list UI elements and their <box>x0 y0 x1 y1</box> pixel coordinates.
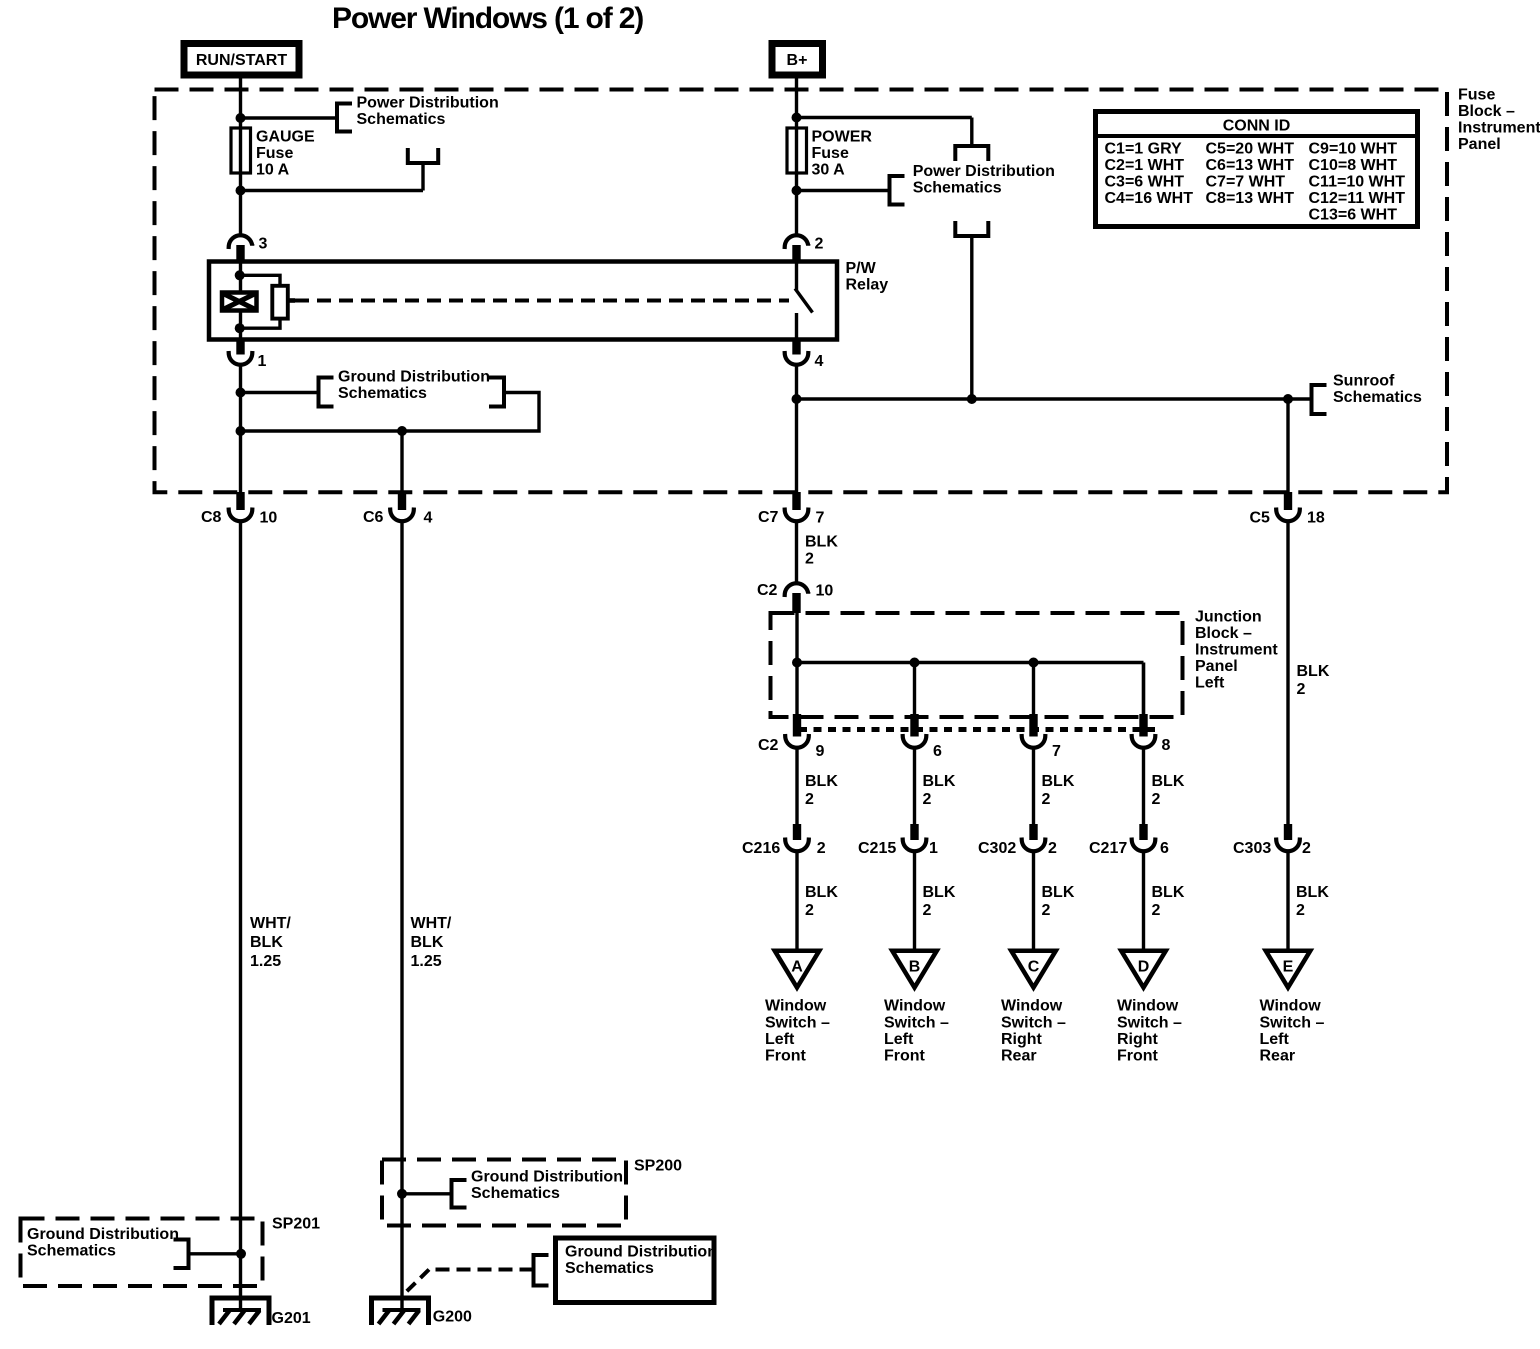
svg-text:Sunroof: Sunroof <box>1333 373 1395 390</box>
connector C2 face dotted line <box>799 727 1155 732</box>
svg-text:Switch –: Switch – <box>1117 1014 1182 1031</box>
svg-text:SP200: SP200 <box>634 1158 682 1175</box>
svg-text:P/W: P/W <box>846 260 877 277</box>
connector C5 pin 18 <box>1276 492 1300 521</box>
bracket to Ground Distribution (fuse block) <box>319 378 334 407</box>
svg-text:Left: Left <box>765 1031 795 1048</box>
svg-text:Switch –: Switch – <box>1001 1014 1066 1031</box>
wire junction drop pin 6 <box>913 663 916 715</box>
wire RUN/START to fuse F-GAUGE <box>239 78 242 128</box>
svg-text:D: D <box>1138 959 1150 976</box>
svg-text:G200: G200 <box>433 1309 472 1326</box>
wire stem up to bracket <box>421 163 424 191</box>
svg-text:2: 2 <box>1042 902 1051 919</box>
svg-text:Window: Window <box>884 998 946 1015</box>
svg-text:G201: G201 <box>272 1310 311 1327</box>
ground G201 <box>212 1298 269 1325</box>
svg-text:BLK: BLK <box>805 773 838 790</box>
svg-text:10: 10 <box>260 510 278 527</box>
wire C7 to C2-10 <box>795 522 798 583</box>
svg-text:Schematics: Schematics <box>27 1243 116 1260</box>
svg-text:BLK: BLK <box>1296 884 1329 901</box>
svg-text:BLK: BLK <box>1152 884 1185 901</box>
relay switch contact <box>795 262 813 340</box>
wire C303 to ground triangle E <box>1286 852 1289 951</box>
junction block - instrument panel left dashed box <box>771 613 1183 717</box>
svg-text:C: C <box>1028 959 1040 976</box>
node junction bus pin6 <box>910 658 920 668</box>
connector C216 pin 2 <box>785 824 809 851</box>
svg-text:WHT/: WHT/ <box>411 915 452 932</box>
svg-text:Schematics: Schematics <box>357 111 446 128</box>
relay pin 1 connector <box>229 340 253 365</box>
fuse block - instrument panel dashed box <box>155 90 1448 493</box>
svg-text:Schematics: Schematics <box>338 385 427 402</box>
connector C2 pin 6 <box>903 714 927 748</box>
wire junction drop pin 8 <box>1142 663 1146 715</box>
svg-text:7: 7 <box>816 510 825 527</box>
svg-text:C216: C216 <box>742 840 780 857</box>
svg-text:Block –: Block – <box>1195 625 1252 642</box>
svg-text:30 A: 30 A <box>812 162 846 179</box>
bracket below Power Distribution (right) <box>955 221 988 236</box>
svg-text:Schematics: Schematics <box>1333 389 1422 406</box>
svg-text:Window: Window <box>1260 998 1322 1015</box>
svg-text:2: 2 <box>805 551 814 568</box>
svg-text:C2: C2 <box>758 737 779 754</box>
svg-text:10: 10 <box>816 583 834 600</box>
wire to connector C303 <box>1286 522 1289 824</box>
svg-text:RUN/START: RUN/START <box>196 52 287 69</box>
bracket to Power Distribution Schematics (right label) <box>890 176 905 205</box>
svg-text:2: 2 <box>923 791 932 808</box>
box Ground Distribution Schematics (solid) <box>556 1238 715 1303</box>
svg-text:2: 2 <box>817 840 826 857</box>
svg-text:E: E <box>1283 959 1294 976</box>
node splice SP201 <box>236 1249 246 1259</box>
node junction bus pin9 <box>792 658 802 668</box>
svg-text:Fuse: Fuse <box>256 145 293 162</box>
wire pin1 down through ground-distribution nodes <box>239 365 242 510</box>
relay pin 2 connector <box>785 235 809 261</box>
svg-text:BLK: BLK <box>805 534 838 551</box>
wire node to power-distribution bracket (right) <box>797 189 890 192</box>
ground reference triangle E <box>1266 951 1311 988</box>
node bus at power-distribution stem <box>967 394 977 404</box>
connector C302 pin 2 <box>1022 824 1046 851</box>
svg-text:SP201: SP201 <box>272 1216 320 1233</box>
node return loop branch to C6 <box>397 426 407 436</box>
wire power fuse to relay pin2 <box>795 173 798 234</box>
svg-text:Power Distribution: Power Distribution <box>357 95 499 112</box>
svg-text:6: 6 <box>1160 840 1169 857</box>
wire node to ground-distribution bracket <box>241 391 319 394</box>
table CONN ID <box>1096 112 1418 227</box>
svg-text:C3=6 WHT: C3=6 WHT <box>1105 174 1185 191</box>
connector C303 pin 2 <box>1276 824 1300 851</box>
splice SP201 dashed box <box>21 1219 263 1287</box>
ground reference triangle C <box>1011 951 1056 988</box>
svg-text:B+: B+ <box>787 52 808 69</box>
svg-text:Schematics: Schematics <box>471 1185 560 1202</box>
svg-text:Ground Distribution: Ground Distribution <box>471 1169 623 1186</box>
node below power fuse <box>792 186 802 196</box>
fuse GAUGE 10A <box>231 128 251 173</box>
bracket to Power Distribution (left) <box>337 104 352 132</box>
svg-text:Right: Right <box>1117 1031 1159 1048</box>
svg-text:10 A: 10 A <box>256 162 290 179</box>
svg-text:7: 7 <box>1052 743 1061 760</box>
svg-text:GAUGE: GAUGE <box>256 129 315 146</box>
svg-text:Fuse: Fuse <box>812 145 849 162</box>
svg-text:C1=1 GRY: C1=1 GRY <box>1105 141 1183 158</box>
connector C2 pin 10 <box>785 583 809 613</box>
svg-text:1.25: 1.25 <box>411 953 442 970</box>
wire to connector C217 <box>1142 748 1145 824</box>
wire pin4 to bus <box>795 365 798 399</box>
node ground distribution tap <box>236 388 246 398</box>
dashed actuator link coil to switch <box>295 299 789 303</box>
junction block bus <box>797 661 1144 665</box>
connector C215 pin 1 <box>903 824 927 851</box>
wire branch down to C6 <box>400 431 403 510</box>
svg-text:Left: Left <box>884 1031 914 1048</box>
relay box P/W Relay <box>209 262 837 340</box>
relay pin 4 connector <box>785 340 809 365</box>
svg-text:BLK: BLK <box>250 934 283 951</box>
svg-text:2: 2 <box>805 902 814 919</box>
wire node to lower bracket stem <box>241 189 424 192</box>
node bus at C5 branch <box>1283 394 1293 404</box>
svg-text:B: B <box>909 959 921 976</box>
splice SP200 dashed box <box>382 1160 626 1226</box>
svg-text:C7: C7 <box>758 509 779 526</box>
bracket to Ground Distribution (SP200) <box>452 1180 467 1208</box>
wire node to right reference corner <box>797 116 972 119</box>
svg-text:Ground Distribution: Ground Distribution <box>565 1244 717 1261</box>
wire junction drop pin 9 <box>795 663 798 715</box>
svg-text:Schematics: Schematics <box>565 1260 654 1277</box>
svg-text:Window: Window <box>1001 998 1063 1015</box>
svg-text:2: 2 <box>1296 902 1305 919</box>
node at power fuse top <box>792 113 802 123</box>
resistor (relay suppression) <box>272 286 288 319</box>
connector C2 pin 8 <box>1132 714 1156 748</box>
node coil bottom <box>235 323 245 333</box>
wire bracket stem down to bus <box>970 236 973 399</box>
wire C8 to G201 <box>239 522 242 1310</box>
svg-text:6: 6 <box>933 743 942 760</box>
svg-text:BLK: BLK <box>1042 773 1075 790</box>
wire ground-distribution return loop <box>241 393 540 432</box>
svg-text:C9=10 WHT: C9=10 WHT <box>1309 141 1398 158</box>
terminal RUN/START <box>184 44 299 76</box>
wire to connector C215 <box>913 748 916 824</box>
connector C217 pin 6 <box>1132 824 1156 851</box>
svg-text:2: 2 <box>1152 902 1161 919</box>
wire to connector C216 <box>795 748 798 824</box>
svg-text:C8: C8 <box>201 509 222 526</box>
ground G200 <box>372 1298 429 1325</box>
svg-text:9: 9 <box>816 743 825 760</box>
bracket under Power Distribution label (left) <box>408 148 438 163</box>
svg-text:1: 1 <box>258 353 267 370</box>
svg-text:BLK: BLK <box>1152 773 1185 790</box>
wire gauge fuse to bracket stem junction <box>239 173 242 234</box>
svg-text:Schematics: Schematics <box>913 180 1002 197</box>
bracket left of solid box <box>534 1255 549 1286</box>
svg-text:BLK: BLK <box>1297 663 1330 680</box>
svg-text:A: A <box>791 959 803 976</box>
node return loop at left wire <box>236 426 246 436</box>
bracket to Sunroof Schematics <box>1312 385 1327 414</box>
svg-text:Left: Left <box>1195 674 1225 691</box>
svg-text:BLK: BLK <box>805 884 838 901</box>
svg-text:Right: Right <box>1001 1031 1043 1048</box>
svg-text:C215: C215 <box>858 840 896 857</box>
svg-text:Instrument: Instrument <box>1195 642 1278 659</box>
svg-text:2: 2 <box>1042 791 1051 808</box>
svg-text:3: 3 <box>259 236 268 253</box>
wire SP200 to bracket <box>402 1192 452 1195</box>
connector C2 pin 9 <box>785 714 809 748</box>
svg-text:C6: C6 <box>363 509 384 526</box>
svg-text:Rear: Rear <box>1001 1048 1037 1065</box>
svg-text:C5: C5 <box>1250 510 1271 527</box>
svg-text:2: 2 <box>923 902 932 919</box>
svg-text:Junction: Junction <box>1195 609 1262 626</box>
svg-text:Relay: Relay <box>846 277 889 294</box>
connector C2 pin 7 <box>1022 714 1046 748</box>
wire resistor to dashed actuator link <box>288 298 295 303</box>
wire inside gauge fuse <box>239 128 242 173</box>
wire coil top to resistor <box>240 275 280 286</box>
svg-text:C8=13 WHT: C8=13 WHT <box>1206 190 1295 207</box>
svg-text:C6=13 WHT: C6=13 WHT <box>1206 157 1295 174</box>
wire C216 to ground triangle A <box>795 852 798 951</box>
wire C5 branch down <box>1286 399 1289 510</box>
svg-text:Front: Front <box>884 1048 926 1065</box>
svg-text:C13=6 WHT: C13=6 WHT <box>1309 207 1398 224</box>
svg-text:Window: Window <box>765 998 827 1015</box>
relay pin 3 connector <box>229 235 253 261</box>
svg-text:BLK: BLK <box>923 884 956 901</box>
svg-text:BLK: BLK <box>1042 884 1075 901</box>
wire node to power-distribution bracket <box>241 116 338 119</box>
wire bracket to splice SP201 <box>189 1252 242 1255</box>
svg-text:Rear: Rear <box>1260 1048 1296 1065</box>
dashed reference wire to G200 <box>406 1270 534 1293</box>
svg-text:C7=7 WHT: C7=7 WHT <box>1206 174 1286 191</box>
svg-text:2: 2 <box>815 236 824 253</box>
svg-text:Front: Front <box>1117 1048 1159 1065</box>
svg-text:8: 8 <box>1162 737 1171 754</box>
svg-text:Window: Window <box>1117 998 1179 1015</box>
fuse POWER 30A <box>787 128 807 173</box>
svg-text:Panel: Panel <box>1195 658 1238 675</box>
svg-text:BLK: BLK <box>411 934 444 951</box>
connector C8 pin 10 <box>229 492 253 521</box>
svg-text:Left: Left <box>1260 1031 1290 1048</box>
wire C302 to ground triangle C <box>1032 852 1035 951</box>
svg-text:C5=20 WHT: C5=20 WHT <box>1206 141 1295 158</box>
ground reference triangle D <box>1121 951 1166 988</box>
wire C2-10 into junction block <box>795 613 798 663</box>
svg-text:CONN ID: CONN ID <box>1223 118 1291 135</box>
svg-text:C11=10 WHT: C11=10 WHT <box>1309 174 1406 191</box>
svg-text:2: 2 <box>1297 681 1306 698</box>
svg-text:C2: C2 <box>757 582 778 599</box>
svg-text:Ground Distribution: Ground Distribution <box>27 1226 179 1243</box>
svg-text:Switch –: Switch – <box>765 1014 830 1031</box>
svg-text:2: 2 <box>1048 840 1057 857</box>
connector C6 pin 4 <box>390 492 414 521</box>
svg-text:2: 2 <box>805 791 814 808</box>
node below gauge fuse <box>236 186 246 196</box>
svg-text:4: 4 <box>424 510 433 527</box>
svg-text:1.25: 1.25 <box>250 953 281 970</box>
wire C215 to ground triangle B <box>913 852 916 951</box>
svg-text:WHT/: WHT/ <box>250 915 291 932</box>
wire relay coil branch vertical <box>239 262 242 340</box>
wire junction drop pin 7 <box>1032 663 1035 715</box>
svg-text:C217: C217 <box>1089 840 1127 857</box>
svg-text:Ground Distribution: Ground Distribution <box>338 369 490 386</box>
svg-text:4: 4 <box>815 353 824 370</box>
svg-text:Power Windows (1 of 2): Power Windows (1 of 2) <box>332 2 643 35</box>
wire resistor bottom to coil bottom node <box>240 319 280 329</box>
svg-text:C302: C302 <box>978 840 1016 857</box>
svg-text:Block –: Block – <box>1458 103 1515 120</box>
svg-text:BLK: BLK <box>923 773 956 790</box>
connector C7 pin 7 <box>785 492 809 521</box>
ground reference triangle A <box>775 951 820 988</box>
svg-text:C10=8 WHT: C10=8 WHT <box>1309 157 1398 174</box>
relay coil (box with X) <box>222 293 257 311</box>
svg-text:POWER: POWER <box>812 129 873 146</box>
node bus at pin4 wire <box>792 394 802 404</box>
bracket above Power Distribution (right) <box>955 146 988 161</box>
svg-text:Front: Front <box>765 1048 807 1065</box>
svg-text:C303: C303 <box>1233 840 1271 857</box>
wire to connector C302 <box>1032 748 1035 824</box>
svg-text:2: 2 <box>1152 791 1161 808</box>
svg-text:Panel: Panel <box>1458 136 1501 153</box>
svg-text:C12=11 WHT: C12=11 WHT <box>1309 190 1406 207</box>
wire corner down to top bracket <box>970 118 973 147</box>
svg-text:Fuse: Fuse <box>1458 87 1495 104</box>
wire B+ to power fuse <box>795 78 798 128</box>
svg-text:Power Distribution: Power Distribution <box>913 163 1055 180</box>
svg-text:C2=1 WHT: C2=1 WHT <box>1105 157 1185 174</box>
svg-text:Switch –: Switch – <box>884 1014 949 1031</box>
wire bus down to C7 <box>795 399 798 510</box>
bus wire to sunroof reference <box>797 397 1312 401</box>
node splice SP200 <box>397 1189 407 1199</box>
node at gauge fuse top <box>236 113 246 123</box>
bracket right of Ground Distribution label <box>489 378 504 407</box>
node coil top <box>235 270 245 280</box>
node junction bus pin7 <box>1029 658 1039 668</box>
svg-text:C4=16 WHT: C4=16 WHT <box>1105 190 1194 207</box>
terminal B+ <box>772 44 823 76</box>
svg-text:2: 2 <box>1302 840 1311 857</box>
bracket right of Ground Distribution (SP201) <box>174 1240 189 1269</box>
wire C217 to ground triangle D <box>1142 852 1145 951</box>
svg-text:Instrument: Instrument <box>1458 120 1540 137</box>
ground reference triangle B <box>892 951 937 988</box>
svg-text:1: 1 <box>929 840 938 857</box>
svg-text:Switch –: Switch – <box>1260 1014 1325 1031</box>
wire inside power fuse <box>795 128 798 173</box>
wire C6 to G200 <box>400 522 403 1310</box>
svg-text:18: 18 <box>1307 510 1325 527</box>
